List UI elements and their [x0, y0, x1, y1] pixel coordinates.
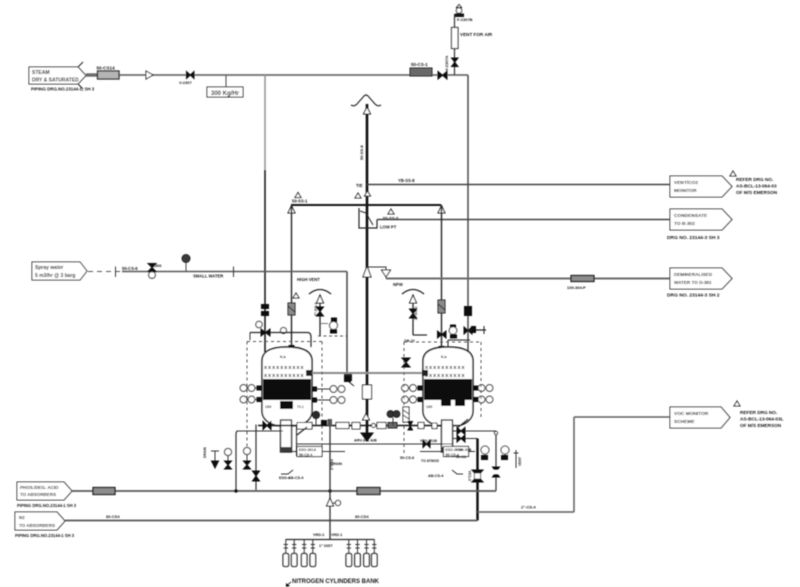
wire steam riser left (gray top) — [264, 75, 266, 170]
condensate branch line — [377, 219, 670, 221]
vessel C-301A packing hatch — [264, 365, 305, 379]
svg-text:TI-1: TI-1 — [297, 405, 304, 409]
N2 riser thick — [468, 439, 483, 521]
svg-text:SCHEME: SCHEME — [674, 419, 695, 425]
skirt diagonal brace left — [297, 427, 307, 435]
svg-text:AB-CS-4: AB-CS-4 — [428, 474, 444, 478]
svg-text:Spray water: Spray water — [35, 265, 63, 271]
wire steam header — [86, 74, 468, 76]
right steam entry valves — [404, 306, 486, 347]
svg-text:xxxxxxxxxx: xxxxxxxxxx — [264, 373, 305, 379]
ESD box right — [400, 439, 475, 478]
left steam entry valves — [250, 304, 311, 347]
right drain cluster — [453, 428, 522, 469]
vessel C-301A lower internals — [265, 401, 304, 409]
nitrogen cylinders — [283, 540, 377, 567]
svg-text:AS-BCL-13-064-03L: AS-BCL-13-064-03L — [740, 417, 784, 422]
valve on steam near vent — [438, 72, 447, 80]
svg-text:TIE: TIE — [356, 183, 363, 188]
svg-text:V-2307: V-2307 — [179, 80, 192, 85]
svg-text:1" DIST: 1" DIST — [319, 544, 333, 548]
svg-text:VENT FOR AIR: VENT FOR AIR — [460, 32, 493, 37]
svg-text:PIPING DRG.NO.23144-1, SH 3: PIPING DRG.NO.23144-1, SH 3 — [31, 87, 95, 92]
condensate trap — [355, 193, 399, 230]
acid feed riser — [493, 434, 500, 491]
flag vent/co2 monitor — [670, 171, 778, 197]
valve V-2307 — [179, 72, 194, 86]
wire gray crossover between vessels — [306, 370, 428, 381]
left vessel instrument lollipops (right side) — [312, 386, 345, 404]
svg-text:ILa: ILa — [441, 354, 448, 359]
svg-text:TO ATMOS: TO ATMOS — [421, 459, 440, 463]
svg-text:PIPING DRG.NO.23144-1 SH 3: PIPING DRG.NO.23144-1 SH 3 — [17, 503, 77, 508]
svg-text:YB-SS-8: YB-SS-8 — [398, 178, 415, 183]
svg-text:ESD-301A: ESD-301A — [299, 448, 317, 452]
svg-text:OF M/S EMERSON: OF M/S EMERSON — [740, 423, 782, 428]
svg-text:TO ABSORBERS: TO ABSORBERS — [20, 492, 56, 497]
flag condensate — [667, 209, 732, 241]
svg-text:V-2307A: V-2307A — [444, 55, 449, 71]
VOC sample line — [478, 417, 671, 512]
svg-text:N2: N2 — [19, 515, 25, 520]
svg-text:50-CS-6: 50-CS-6 — [122, 266, 138, 271]
svg-text:2"-SS-1: 2"-SS-1 — [314, 302, 318, 316]
ESD box left — [279, 447, 345, 481]
svg-text:50-CS: 50-CS — [456, 455, 467, 459]
svg-text:PIPING DRG.NO.23144-1 SH 3: PIPING DRG.NO.23144-1 SH 3 — [15, 533, 75, 538]
wire N2 line — [65, 520, 478, 522]
svg-text:STEAM: STEAM — [32, 70, 50, 76]
svg-text:AS-BCL-13-064-03: AS-BCL-13-064-03 — [736, 184, 777, 189]
spray line instrument — [182, 255, 223, 279]
spec box demin — [567, 276, 594, 291]
svg-text:2806: 2806 — [153, 264, 161, 268]
main vent stack (thick) — [351, 95, 381, 433]
drain sub-header — [297, 426, 453, 467]
wire spray line dashed start — [88, 271, 122, 273]
svg-text:REFER DRG NO.: REFER DRG NO. — [740, 410, 777, 415]
svg-text:50-SS-1: 50-SS-1 — [292, 199, 308, 204]
svg-text:VRD-2: VRD-2 — [313, 533, 324, 537]
svg-text:WATER TO D-301: WATER TO D-301 — [674, 280, 712, 285]
svg-text:80-CS4: 80-CS4 — [355, 514, 369, 519]
dashed line valve right — [402, 358, 410, 422]
flag N2 to absorbers — [15, 512, 75, 538]
svg-text:DRAIN: DRAIN — [203, 447, 207, 458]
svg-text:80-CS4: 80-CS4 — [106, 514, 120, 519]
nitrogen cylinders bank — [286, 533, 375, 548]
svg-text:SMALL WATER: SMALL WATER — [193, 274, 223, 279]
bottom manifold — [258, 411, 442, 441]
svg-text:50-SS-0: 50-SS-0 — [383, 216, 399, 221]
svg-text:50-CS-8: 50-CS-8 — [400, 456, 414, 460]
vent header above vessels — [288, 193, 445, 214]
steam rate box 300 Kg/Hr — [207, 75, 243, 97]
wire steam riser left (dark bottom) — [264, 170, 266, 352]
svg-text:DRY & SATURATED: DRY & SATURATED — [32, 78, 79, 84]
dashed interlock box right — [404, 342, 481, 455]
flag spray water — [32, 262, 87, 280]
svg-text:OF M/S EMERSON: OF M/S EMERSON — [736, 190, 778, 195]
svg-text:DEMINERALISED: DEMINERALISED — [674, 272, 713, 277]
svg-text:2"-CS-4: 2"-CS-4 — [521, 505, 536, 510]
demin water line — [386, 278, 670, 280]
flag steam inlet — [29, 62, 95, 92]
spec box 50-CS-1 — [410, 62, 432, 76]
vessel C-301A bed (black band) — [263, 379, 311, 400]
svg-text:TO B-302: TO B-302 — [674, 221, 695, 227]
wire spray drop — [346, 272, 348, 375]
svg-text:HIGH VENT: HIGH VENT — [297, 277, 320, 282]
svg-text:180: 180 — [426, 405, 432, 409]
svg-text:CONDENSATE: CONDENSATE — [674, 213, 708, 219]
flag acid to absorbers — [17, 482, 77, 508]
vessel C-301A outline — [262, 347, 312, 426]
dashed interlock box left — [247, 342, 322, 459]
vessel C-301B packing hatch — [425, 365, 466, 379]
wire header drop right — [441, 205, 443, 350]
node acid/N2 junction — [328, 489, 331, 492]
vent for air stack — [444, 5, 493, 76]
svg-text:5 m3/hr @ 3 barg: 5 m3/hr @ 3 barg — [35, 273, 75, 279]
vessel C-301B skirt — [442, 420, 453, 452]
left header drop spectacle — [288, 303, 295, 315]
svg-text:F-2307B: F-2307B — [457, 17, 473, 22]
vessel C-301B outline — [423, 347, 473, 426]
right vessel instrument lollipops (right side) — [473, 385, 493, 403]
svg-text:VRD-30B: VRD-30B — [456, 448, 472, 452]
svg-text:xxxxxxxxxx: xxxxxxxxxx — [264, 365, 305, 371]
wire acid line — [72, 490, 496, 492]
svg-text:300 Kg/Hr: 300 Kg/Hr — [211, 91, 240, 97]
svg-text:100-304-P: 100-304-P — [567, 285, 586, 290]
spray line elbow fitting — [344, 376, 354, 386]
svg-text:50-CS14: 50-CS14 — [97, 66, 116, 71]
svg-text:50-CS-1: 50-CS-1 — [411, 62, 428, 67]
svg-text:ARV-301 A/B: ARV-301 A/B — [354, 439, 377, 443]
svg-text:xxxxxxxxxx: xxxxxxxxxx — [425, 365, 466, 371]
flag demineralised water — [667, 268, 732, 299]
svg-text:PHOS./DEG. ACID: PHOS./DEG. ACID — [20, 485, 59, 490]
spec box acid 2 — [357, 488, 380, 495]
svg-text:NITROGEN CYLINDERS BANK: NITROGEN CYLINDERS BANK — [292, 579, 380, 585]
svg-text:VOC MONITOR: VOC MONITOR — [674, 411, 709, 417]
left drain cluster — [203, 425, 283, 491]
svg-text:DRG NO. 23144-3 SH 3: DRG NO. 23144-3 SH 3 — [667, 235, 720, 241]
node acid/drain junction — [234, 489, 237, 492]
right header drop spectacle — [438, 300, 447, 338]
wire spray line — [122, 271, 347, 273]
spec box acid 1 — [93, 488, 115, 495]
svg-text:AB-CS-4: AB-CS-4 — [288, 476, 304, 480]
flow arrow steam — [146, 71, 153, 79]
svg-text:DRG NO. 23144-3 SH 2: DRG NO. 23144-3 SH 2 — [667, 293, 720, 299]
svg-text:VENT/CO2: VENT/CO2 — [674, 180, 698, 186]
right vessel instrument lollipops (left side) — [402, 385, 423, 403]
svg-text:50-CS-4: 50-CS-4 — [299, 453, 312, 457]
svg-text:2"CS4: 2"CS4 — [468, 471, 472, 481]
svg-text:2"CS4: 2"CS4 — [330, 459, 334, 470]
high vent left — [293, 277, 347, 336]
spec break box steam — [97, 66, 120, 80]
svg-text:NPW: NPW — [393, 282, 403, 287]
vessel C-301B bed (black band) — [424, 379, 472, 400]
skirt diagonal brace right — [457, 419, 468, 428]
svg-text:TO ABSORBERS: TO ABSORBERS — [19, 523, 55, 528]
svg-text:REFER DRG NO.: REFER DRG NO. — [736, 177, 773, 182]
vent/co2 branch line — [356, 178, 670, 196]
high vent right — [402, 290, 427, 336]
wire header drop left — [291, 205, 293, 348]
svg-text:2"-SS-1: 2"-SS-1 — [414, 306, 418, 320]
left vessel instrument lollipops (left side) — [240, 385, 262, 403]
svg-text:VRD-1: VRD-1 — [331, 533, 342, 537]
svg-text:VRV-301B: VRV-301B — [420, 439, 437, 443]
flag VOC monitor scheme — [670, 401, 784, 428]
svg-text:ILa: ILa — [280, 354, 287, 359]
vessel C-301B lower internals — [426, 400, 465, 409]
N2 center riser — [327, 426, 341, 540]
wire steam riser right — [467, 75, 469, 352]
svg-text:xxxxxxxxxx: xxxxxxxxxx — [425, 373, 466, 379]
svg-text:LOW PT: LOW PT — [380, 225, 397, 230]
demin water funnel — [367, 267, 403, 287]
spray line valve — [116, 264, 234, 279]
svg-text:MONITOR: MONITOR — [674, 188, 697, 194]
svg-text:VENT: VENT — [518, 456, 522, 466]
label nitrogen cylinders bank — [286, 579, 380, 587]
svg-text:180: 180 — [265, 405, 271, 409]
vessel C-301A skirt — [281, 420, 292, 452]
svg-text:50-SS-8: 50-SS-8 — [359, 145, 364, 160]
